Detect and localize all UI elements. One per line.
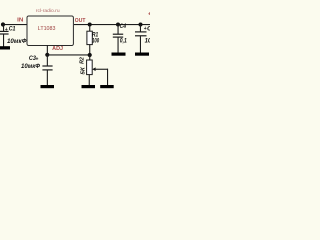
background (0, 0, 150, 100)
capacitor C1 (0, 25, 9, 47)
ground C1 (0, 46, 10, 49)
node IN junction (1, 22, 5, 26)
wire ADJ pin (47, 45, 48, 55)
svg-text:+: + (36, 57, 39, 63)
node ADJ-R2 junction (88, 53, 92, 57)
svg-text:LT1083: LT1083 (38, 26, 56, 32)
node OUT-R1 junction (88, 23, 92, 27)
resistor R2 (trimmer) (87, 60, 93, 75)
svg-text:+: + (5, 27, 8, 33)
capacitor C4 (113, 25, 123, 53)
wire R2 top lead (89, 55, 90, 60)
svg-text:0,1: 0,1 (120, 39, 128, 45)
node ADJ junction (45, 53, 49, 57)
svg-text:10мкФ: 10мкФ (21, 64, 40, 70)
svg-text:100: 100 (92, 39, 100, 45)
wire R1 bottom lead (89, 45, 90, 55)
resistor R1 (87, 31, 92, 44)
capacitor C3 (42, 55, 52, 85)
svg-text:ADJ: ADJ (52, 46, 63, 52)
svg-text:C4: C4 (120, 23, 127, 30)
svg-text:C1: C1 (9, 26, 16, 33)
ground R2 (82, 85, 96, 88)
svg-text:+U: +U (148, 12, 150, 18)
svg-text:C2: C2 (147, 26, 150, 33)
ground C4 (112, 53, 126, 56)
svg-text:R2: R2 (79, 56, 85, 64)
wire R1 top lead (89, 25, 90, 32)
regulator U1 LT1083 box (27, 16, 73, 46)
svg-text:10мкФ: 10мкФ (145, 38, 150, 44)
wire R2 wiper (92, 67, 108, 85)
wire IN rail (1, 24, 28, 25)
wire ADJ rail (47, 54, 89, 55)
node OUT-C4 junction (116, 23, 120, 27)
capacitor C2 (135, 25, 147, 53)
ground C3 (41, 85, 55, 88)
ground R2 wiper (100, 85, 114, 88)
svg-text:10мкФ: 10мкФ (7, 39, 27, 45)
wire R2 bottom lead (89, 75, 90, 85)
node OUT-C2 junction (139, 23, 143, 27)
svg-text:rcl-radio.ru: rcl-radio.ru (36, 8, 60, 14)
svg-text:IN: IN (17, 17, 24, 23)
svg-text:OUT: OUT (75, 18, 86, 24)
ground C2 (135, 53, 149, 56)
svg-text:5К: 5К (80, 67, 86, 75)
wire OUT rail (74, 24, 150, 25)
